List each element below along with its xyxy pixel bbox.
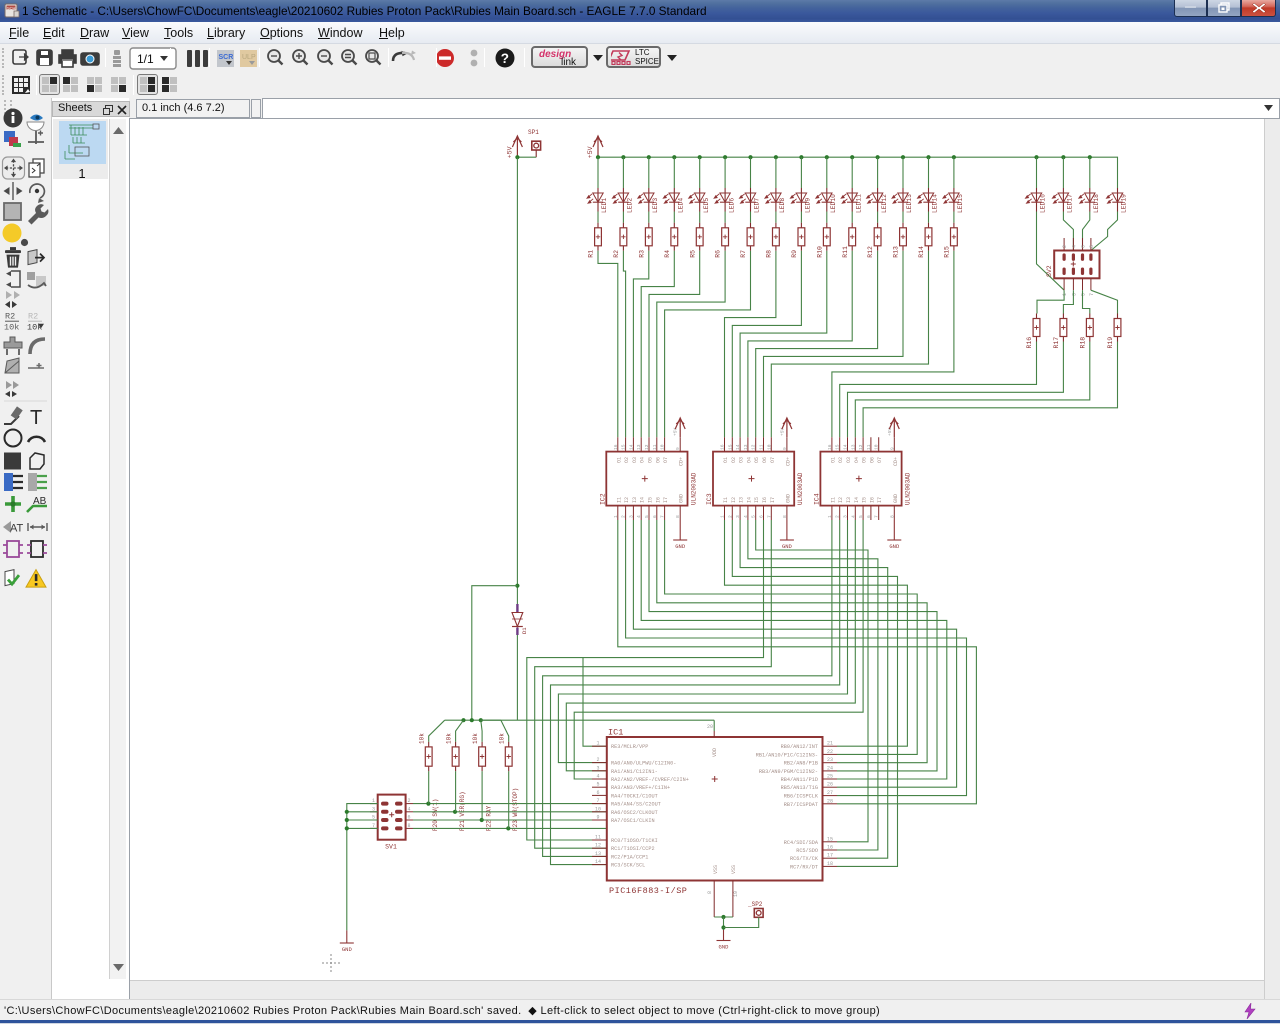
svg-text:O6: O6 <box>762 457 768 463</box>
resistor R7 <box>740 223 754 258</box>
power symbol +5V at IC3 pin9 <box>782 418 792 437</box>
svg-text:15: 15 <box>727 444 733 450</box>
svg-text:RB6/ICSPCLK: RB6/ICSPCLK <box>784 794 819 800</box>
svg-text:O1: O1 <box>830 457 836 463</box>
svg-text:LED19: LED19 <box>1121 194 1128 213</box>
svg-text:20: 20 <box>707 724 713 730</box>
svg-text:15: 15 <box>621 444 627 450</box>
svg-text:R2: R2 <box>5 312 15 322</box>
wire R9 to IC pin <box>732 251 801 437</box>
svg-text:IC3: IC3 <box>706 493 713 505</box>
wire R18 to IC4 pin <box>855 342 1090 438</box>
wire SP2 to ground <box>724 917 759 927</box>
svg-text:14: 14 <box>628 444 634 450</box>
svg-text:RC5/SDO: RC5/SDO <box>796 848 818 854</box>
svg-text:LED6: LED6 <box>728 198 735 213</box>
wire R5 to IC pin <box>649 251 700 437</box>
svg-text:O1: O1 <box>723 457 729 463</box>
junction rail LED2 <box>621 155 625 159</box>
junction SV1 gnd bus <box>345 826 349 830</box>
connector SV2 <box>1046 238 1100 296</box>
svg-text:RA0/AN0/ULPWU/C12IN0-: RA0/AN0/ULPWU/C12IN0- <box>611 761 676 767</box>
wire SP1 to +5V <box>517 156 536 158</box>
LED LED1 <box>587 188 608 213</box>
r3 move (selected) / copy <box>3 157 45 179</box>
svg-text:LED5: LED5 <box>703 198 710 213</box>
svg-text:R17: R17 <box>1053 337 1060 349</box>
svg-text:O3: O3 <box>632 457 638 463</box>
svg-text:9: 9 <box>782 447 788 450</box>
wire LED2 to R2 <box>622 212 624 223</box>
junction rail LED14 <box>926 155 930 159</box>
wire R20 to row <box>428 771 430 803</box>
diode D1 <box>512 586 528 635</box>
svg-text:10: 10 <box>766 444 772 450</box>
svg-text:6: 6 <box>759 515 765 518</box>
svg-text:CD+: CD+ <box>679 457 685 466</box>
svg-text:T: T <box>30 407 42 429</box>
wire LED4 to R4 <box>673 212 675 223</box>
wire LED7 to R7 <box>750 212 752 223</box>
IC U1 (IC1 PIC16F883) body <box>607 728 823 897</box>
wire IC to IC1 pin 23 <box>657 520 927 763</box>
svg-text:R3: R3 <box>638 250 645 258</box>
resistor R12 <box>867 223 881 258</box>
svg-text:R10: R10 <box>816 246 823 258</box>
svg-text:4: 4 <box>743 515 749 518</box>
junction SV1 gnd bus <box>345 810 349 814</box>
svg-text:5: 5 <box>858 515 864 518</box>
resistor R13 <box>893 223 907 258</box>
wire LED11 to R11 <box>851 212 853 223</box>
svg-text:10k: 10k <box>499 733 506 744</box>
svg-text:16: 16 <box>720 444 726 450</box>
svg-text:6: 6 <box>866 515 872 518</box>
svg-text:LED13: LED13 <box>906 194 913 213</box>
svg-text:8: 8 <box>675 515 681 518</box>
junction rail LED16 <box>1034 155 1038 159</box>
wire rail to LED18 <box>1089 157 1091 188</box>
svg-text:8: 8 <box>1089 245 1095 248</box>
svg-text:R15: R15 <box>944 246 951 258</box>
svg-text:28: 28 <box>827 798 833 804</box>
svg-text:RC3/SCK/SCL: RC3/SCK/SCL <box>611 863 645 869</box>
wire R16 to IC4 pin <box>840 342 1037 438</box>
svg-text:GND: GND <box>782 543 793 550</box>
svg-text:8: 8 <box>782 515 788 518</box>
svg-text:RE3/MCLR/VPP: RE3/MCLR/VPP <box>611 744 648 750</box>
svg-text:O4: O4 <box>640 457 646 463</box>
wire R11 to IC pin <box>748 251 852 437</box>
svg-text:24: 24 <box>827 765 833 771</box>
svg-text:7: 7 <box>1089 293 1095 296</box>
wire SV1 row 1 to IC1 <box>413 803 607 805</box>
menu bar <box>0 22 1280 44</box>
wire LED13 to R13 <box>902 212 904 223</box>
wire to IC1 pin 13 <box>543 520 832 856</box>
junction D1 top <box>515 584 519 588</box>
svg-text:O5: O5 <box>862 457 868 463</box>
svg-text:4: 4 <box>850 515 856 518</box>
IC1 right pins <box>756 741 837 871</box>
svg-text:_SP2: _SP2 <box>747 901 763 908</box>
svg-text:SV1: SV1 <box>385 843 397 850</box>
svg-text:I2: I2 <box>838 497 844 503</box>
junction +5V pullups <box>470 718 474 722</box>
wire R19 to IC4 pin <box>863 342 1117 438</box>
wire IC to IC1 pin 27 <box>626 520 967 796</box>
wire LED15 to R15 <box>953 212 955 223</box>
r19 attribute / dimension <box>3 521 47 535</box>
svg-text:2: 2 <box>1062 245 1068 248</box>
IC IC3 ULN2003AD <box>706 427 804 520</box>
svg-text:RC1/T1OSI/CCP2: RC1/T1OSI/CCP2 <box>611 846 655 852</box>
status bar <box>0 999 1280 1024</box>
left tool palette <box>0 98 51 999</box>
svg-text:LED17: LED17 <box>1067 194 1074 213</box>
svg-text:SCH: SCH <box>7 5 16 10</box>
resistor R15 <box>944 223 958 258</box>
connector SV1 <box>370 795 413 851</box>
svg-text:LED18: LED18 <box>1093 194 1100 213</box>
svg-text:O2: O2 <box>624 457 630 463</box>
IC1 left pins <box>592 741 689 869</box>
wire IC to IC1 pin 26 <box>633 520 956 787</box>
svg-text:R11: R11 <box>842 246 849 258</box>
LED LED7 <box>740 188 761 213</box>
wire LED19 to SV2 pin4 <box>1091 212 1118 251</box>
svg-text:O3: O3 <box>846 457 852 463</box>
svg-text:O7: O7 <box>770 457 776 463</box>
resistor R23 10k pull-up <box>499 733 520 831</box>
svg-text:O4: O4 <box>746 457 752 463</box>
resistor R18 <box>1079 314 1093 349</box>
svg-text:6: 6 <box>408 815 411 821</box>
svg-text:GND: GND <box>342 946 353 953</box>
svg-text:LED7: LED7 <box>754 198 761 213</box>
toolbar row 1 <box>0 44 1280 72</box>
svg-text:O3: O3 <box>739 457 745 463</box>
svg-text:LED3: LED3 <box>652 198 659 213</box>
junction rail LED9 <box>799 155 803 159</box>
svg-text:LED15: LED15 <box>957 194 964 213</box>
svg-text:5: 5 <box>1081 293 1087 296</box>
svg-text:2: 2 <box>835 515 841 518</box>
svg-text:I7: I7 <box>770 497 776 503</box>
svg-text:VSS: VSS <box>713 865 719 874</box>
svg-text:2: 2 <box>727 515 733 518</box>
wire to IC1 pin 12 <box>535 520 772 848</box>
wire rail to LED19 <box>1117 174 1119 188</box>
wire rail to LED17 <box>1062 157 1064 188</box>
LED LED11 <box>841 188 862 213</box>
svg-text:O6: O6 <box>869 457 875 463</box>
svg-text:11: 11 <box>595 835 601 841</box>
svg-text:VDD: VDD <box>712 748 718 757</box>
junction rail LED10 <box>825 155 829 159</box>
svg-text:GND: GND <box>675 543 686 550</box>
svg-text:R4: R4 <box>664 250 671 258</box>
svg-text:I6: I6 <box>762 497 768 503</box>
svg-text:1: 1 <box>827 515 833 518</box>
svg-text:GND: GND <box>889 543 900 550</box>
IC1 pin 20 VDD <box>713 731 715 737</box>
wire rail to LED13 <box>902 157 904 188</box>
svg-text:7: 7 <box>596 798 599 804</box>
LED LED9 <box>790 188 811 213</box>
svg-text:LED8: LED8 <box>779 198 786 213</box>
svg-text:9: 9 <box>675 447 681 450</box>
svg-text:3: 3 <box>1071 293 1077 296</box>
wire SV1 row 2 to IC1 <box>413 811 607 813</box>
svg-text:13: 13 <box>850 444 856 450</box>
r2 display layers / origin <box>4 131 44 148</box>
wire IC to IC1 pin 18 <box>732 520 897 866</box>
svg-text:ULN2003AD: ULN2003AD <box>691 472 698 505</box>
resistor R19 <box>1107 314 1121 349</box>
junction rail LED6 <box>723 155 727 159</box>
wire +5V branch left <box>472 586 518 721</box>
r1 info / show <box>4 109 45 131</box>
wire R7 to IC pin <box>665 251 751 437</box>
svg-text:LED10: LED10 <box>830 194 837 213</box>
svg-text:IC1: IC1 <box>608 728 623 738</box>
svg-text:VSS: VSS <box>731 865 737 874</box>
svg-text:LED9: LED9 <box>805 198 812 213</box>
junction +5V pullups <box>461 718 465 722</box>
svg-text:RC0/T1OSO/T1CKI: RC0/T1OSO/T1CKI <box>611 838 658 844</box>
wire R13 to IC pin <box>764 251 904 437</box>
svg-text:?: ? <box>501 51 509 66</box>
svg-text:I3: I3 <box>739 497 745 503</box>
wire rail to LED9 <box>800 157 802 188</box>
resistor R1 <box>588 223 602 258</box>
svg-text:11: 11 <box>759 444 765 450</box>
svg-text:23: 23 <box>827 757 833 763</box>
svg-text:RB4/AN11/P1D: RB4/AN11/P1D <box>781 777 818 783</box>
svg-text:RA4/T0CKI/C1OUT: RA4/T0CKI/C1OUT <box>611 793 658 799</box>
wire IC to IC1 pin 16 <box>748 520 878 850</box>
svg-text:7: 7 <box>874 515 880 518</box>
svg-text:3: 3 <box>628 515 634 518</box>
wire R6 to IC pin <box>657 251 725 437</box>
wire IC to IC1 pin 28 <box>618 520 977 804</box>
wire SV1 row 4 to IC1 <box>413 827 607 829</box>
LED LED12 <box>867 188 888 213</box>
LED LED2 <box>612 188 633 213</box>
LED LED19 <box>1107 188 1128 213</box>
r20 erc <box>3 541 47 557</box>
wire rail to LED6 <box>724 157 726 188</box>
svg-text:GND: GND <box>893 494 899 503</box>
svg-text:D1: D1 <box>521 627 528 634</box>
wire IC to IC1 pin 21 <box>725 520 908 746</box>
svg-text:8: 8 <box>408 823 411 829</box>
svg-text:R7: R7 <box>740 250 747 258</box>
wire diagonals to pull-up resistors <box>429 720 509 742</box>
svg-text:R14: R14 <box>918 246 925 258</box>
svg-text:4: 4 <box>1071 245 1077 248</box>
svg-text:I4: I4 <box>640 497 646 503</box>
svg-text:10: 10 <box>874 444 880 450</box>
resistor R16 <box>1026 314 1040 349</box>
LED LED13 <box>892 188 913 213</box>
svg-text:R13: R13 <box>893 246 900 258</box>
svg-text:10: 10 <box>660 444 666 450</box>
svg-text:4: 4 <box>636 515 642 518</box>
wire LED8 to R8 <box>775 212 777 223</box>
svg-text:I6: I6 <box>869 497 875 503</box>
wire rail to LED15 <box>953 157 955 188</box>
svg-text:12: 12 <box>644 444 650 450</box>
svg-text:16: 16 <box>827 444 833 450</box>
svg-text:R8: R8 <box>766 250 773 258</box>
svg-text:PIC16F883-I/SP: PIC16F883-I/SP <box>609 886 687 896</box>
wire LED1 to R1 <box>597 212 599 223</box>
r10 name / value <box>4 312 44 333</box>
resistor R11 <box>842 223 856 258</box>
wire LED17 to SV2 pin2 <box>1063 212 1073 251</box>
wire SV1 row 3 to IC1 <box>413 819 607 821</box>
junction rail LED8 <box>774 155 778 159</box>
svg-text:GND: GND <box>719 944 730 951</box>
wire SV1 left to ground <box>347 804 378 931</box>
svg-text:1: 1 <box>613 515 619 518</box>
wire SV2 pin4 to R19 <box>1091 290 1118 313</box>
LED LED3 <box>638 188 659 213</box>
junction R21 <box>453 810 457 814</box>
svg-text:6: 6 <box>652 515 658 518</box>
junction +5V/SP1 <box>515 155 519 159</box>
svg-text:10k: 10k <box>472 733 479 744</box>
junction SV1 gnd bus <box>345 818 349 822</box>
LED LED5 <box>689 188 710 213</box>
junction rail LED5 <box>698 155 702 159</box>
wire to IC1 pin 1 <box>583 658 607 747</box>
svg-text:10: 10 <box>595 806 601 812</box>
svg-text:I1: I1 <box>616 497 622 503</box>
wire SV1 row left <box>347 811 378 813</box>
svg-text:8: 8 <box>889 515 895 518</box>
svg-text:IC4: IC4 <box>813 493 820 505</box>
svg-text:R6: R6 <box>715 250 722 258</box>
svg-text:9: 9 <box>889 447 895 450</box>
svg-text:10k: 10k <box>4 323 19 333</box>
wire rail to LED1 <box>597 157 599 188</box>
svg-text:10k: 10k <box>446 733 453 744</box>
wire SV2 pin3 to R18 <box>1083 290 1090 313</box>
wire R12 to IC pin <box>756 251 878 437</box>
toolbar row 2 <box>0 72 1280 98</box>
wire LED18 to SV2 pin3 <box>1083 212 1090 251</box>
svg-text:10k: 10k <box>419 733 426 744</box>
wire LED5 to R5 <box>699 212 701 223</box>
LED LED4 <box>663 188 684 213</box>
junction VSS <box>721 915 725 919</box>
wire IC to IC1 pin 15 <box>756 520 868 842</box>
wire to IC1 pin 4 <box>574 520 863 779</box>
svg-text:I4: I4 <box>746 497 752 503</box>
wire R4 to IC pin <box>641 251 674 437</box>
wire R17 to IC4 pin <box>848 342 1064 438</box>
svg-text:R16: R16 <box>1026 337 1033 349</box>
svg-text:R21 VER(RG): R21 VER(RG) <box>459 791 466 831</box>
junction rail LED1 <box>596 155 600 159</box>
svg-text:O6: O6 <box>655 457 661 463</box>
solder jumper SP1 <box>528 129 541 157</box>
svg-text:1: 1 <box>720 515 726 518</box>
canvas with schematic <box>129 119 1280 999</box>
power symbol +5V at IC2 pin9 <box>675 418 685 437</box>
wire to IC1 pin 2 <box>558 520 847 763</box>
r15 circle / arc <box>5 430 46 447</box>
wire rail to LED12 <box>877 157 879 188</box>
r11 smash / miter <box>4 337 45 355</box>
solder jumper SP2 <box>747 901 763 917</box>
wire rail to LED7 <box>750 157 752 188</box>
svg-text:1: 1 <box>596 741 599 747</box>
svg-text:O5: O5 <box>754 457 760 463</box>
svg-text:I7: I7 <box>877 497 883 503</box>
ground at IC3 pin8 <box>780 520 794 540</box>
resistor R9 <box>791 223 805 258</box>
wire to IC1 pin 11 <box>527 520 764 840</box>
ground at IC2 pin8 <box>673 520 687 540</box>
svg-text:R1: R1 <box>588 250 595 258</box>
svg-text:3: 3 <box>596 765 599 771</box>
wire +5V vertical to D1 node <box>516 157 518 586</box>
r16 rect / polygon <box>4 453 44 470</box>
wire rail to LED16 <box>1036 157 1038 188</box>
wire rail to LED11 <box>851 157 853 188</box>
wire IC to IC1 pin 24 <box>649 520 937 771</box>
svg-text:O7: O7 <box>663 457 669 463</box>
resistor R17 <box>1053 314 1067 349</box>
svg-text:9: 9 <box>596 815 599 821</box>
ground at IC4 pin8 <box>887 520 901 540</box>
wire LED6 to R6 <box>724 212 726 223</box>
LED LED15 <box>943 188 964 213</box>
wire LED16 to SV2 pin1 <box>1037 212 1065 291</box>
svg-text:27: 27 <box>827 790 833 796</box>
junction rail LED4 <box>672 155 676 159</box>
junction R23 <box>506 826 510 830</box>
svg-text:RB5/AN13/T1G: RB5/AN13/T1G <box>781 785 818 791</box>
wire IC to IC1 pin 25 <box>641 520 947 779</box>
command row: coordinate display + command line <box>0 98 1280 119</box>
svg-text:2: 2 <box>596 757 599 763</box>
ground IC1 <box>717 930 731 941</box>
svg-text:14: 14 <box>595 859 601 865</box>
IC1 pins 8 and 19 VSS <box>707 881 739 918</box>
svg-text:I2: I2 <box>731 497 737 503</box>
r21 errors / warning <box>5 570 46 588</box>
svg-text:26: 26 <box>827 782 833 788</box>
svg-text:1: 1 <box>1062 293 1068 296</box>
svg-text:RA2/AN2/VREF-/CVREF/C2IN+: RA2/AN2/VREF-/CVREF/C2IN+ <box>611 777 689 783</box>
svg-text:I2: I2 <box>624 497 630 503</box>
wire LED14 to R14 <box>928 212 930 223</box>
LED LED14 <box>918 188 939 213</box>
svg-text:R19: R19 <box>1107 337 1114 349</box>
wire SV2 pin2 to R17 <box>1063 290 1073 313</box>
svg-text:I3: I3 <box>846 497 852 503</box>
svg-text:LED4: LED4 <box>678 198 685 213</box>
junction rail LED13 <box>901 155 905 159</box>
junction rail LED15 <box>952 155 956 159</box>
resistor R2 <box>613 223 627 258</box>
svg-text:7: 7 <box>660 515 666 518</box>
